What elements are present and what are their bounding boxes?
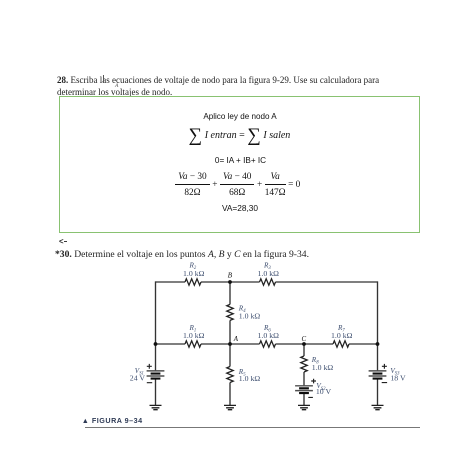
svg-text:1.0 kΩ: 1.0 kΩ (258, 331, 280, 340)
svg-text:1.0 kΩ: 1.0 kΩ (183, 269, 205, 278)
svg-text:A: A (233, 336, 239, 343)
svg-text:1.0 kΩ: 1.0 kΩ (239, 311, 261, 320)
svg-text:B: B (228, 273, 233, 280)
svg-text:1.0 kΩ: 1.0 kΩ (239, 374, 261, 383)
svg-text:C: C (302, 336, 307, 343)
svg-text:1.0 kΩ: 1.0 kΩ (312, 363, 334, 372)
svg-text:10 V: 10 V (316, 387, 332, 396)
svg-text:1.0 kΩ: 1.0 kΩ (258, 269, 280, 278)
svg-text:1.0 kΩ: 1.0 kΩ (331, 331, 353, 340)
svg-text:1.0 kΩ: 1.0 kΩ (183, 331, 205, 340)
svg-text:18 V: 18 V (390, 373, 406, 382)
svg-text:24 V: 24 V (130, 373, 146, 382)
